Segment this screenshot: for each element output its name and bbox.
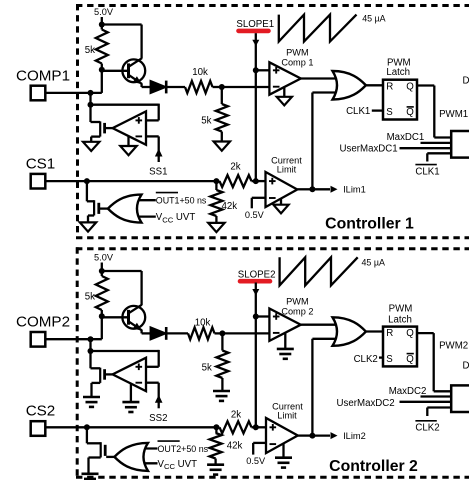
wire: 5.0V rail to transistor collector	[102, 25, 142, 59]
wire: slope node to PWM comparator 2 non-inverting input	[256, 315, 270, 317]
svg-text:COMP1: COMP1	[16, 68, 70, 85]
label: VCC UVT	[156, 212, 196, 224]
wire: base wire 2	[102, 316, 129, 318]
svg-text:PWM: PWM	[286, 48, 308, 58]
ground (below Current Limit)	[273, 198, 288, 213]
svg-text:UserMaxDC1: UserMaxDC1	[340, 143, 398, 154]
wire: UserMaxDC1 input	[400, 147, 452, 149]
comparator U2 (PWM Comp 1)	[269, 48, 313, 95]
svg-text:R: R	[386, 81, 393, 92]
svg-text:SS2: SS2	[149, 413, 167, 424]
wire: CS1 bus	[45, 180, 216, 182]
ground (below M2)	[80, 222, 96, 231]
op-amp U6 (soft-start clamp 2)	[113, 358, 146, 391]
svg-text:CS1: CS1	[26, 155, 56, 172]
node: 5.0V rail junction	[99, 22, 105, 28]
pin COMP1	[16, 68, 70, 101]
label CLK1 (latch set)	[346, 106, 383, 117]
node SS1 (soft-start input)	[149, 149, 167, 178]
svg-text:Limit: Limit	[277, 411, 297, 421]
wire: OR2b top input	[136, 447, 158, 449]
wire: OR2b bottom input	[136, 462, 158, 464]
resistor 5k (pull-up, controller 2)	[85, 271, 108, 316]
label: OUT1+50 ns	[156, 193, 207, 206]
wire: 10k to divider node	[213, 86, 222, 88]
svg-text:Comp 2: Comp 2	[281, 307, 313, 317]
label Controller 1	[325, 216, 414, 233]
resistor 2k (controller 2)	[216, 409, 255, 433]
svg-text:42k: 42k	[222, 201, 238, 212]
ground (below PWM Comp 1)	[277, 86, 292, 105]
node: 5.0V rail junction 2	[99, 268, 105, 274]
svg-text:PWM: PWM	[286, 297, 308, 307]
node: ramp divider junction 2	[219, 330, 225, 336]
wire: sense to op-amp 2 non-inverting input	[91, 350, 159, 367]
ground (below op-amp U6)	[122, 384, 139, 412]
wire: divider node to PWM comparator inverting input	[222, 86, 270, 88]
wire: op-amp output to M1 gate	[106, 127, 113, 129]
svg-text:OUT2+50 ns: OUT2+50 ns	[158, 444, 209, 454]
wire: emitter to diode	[142, 84, 151, 88]
svg-text:Q: Q	[406, 107, 414, 118]
svg-text:CLK2: CLK2	[354, 354, 378, 365]
wire: OR1b top input	[130, 199, 156, 201]
power 5.0V supply	[94, 7, 114, 25]
label CLK1-bar	[415, 165, 439, 178]
label UserMaxDC2	[337, 398, 395, 409]
transistor M1 (clamp MOSFET)	[91, 121, 105, 141]
node: COMP1 / 5k / base junction	[99, 67, 105, 73]
svg-text:Q: Q	[406, 354, 414, 365]
wire: Controller 2 dashed IC boundary	[76, 247, 469, 477]
diode D2	[150, 327, 166, 340]
svg-text:PWM: PWM	[389, 304, 413, 315]
diode D1	[150, 81, 166, 94]
svg-text:Dr: Dr	[463, 75, 469, 86]
svg-text:R: R	[386, 328, 393, 339]
gate OR1 (PWM set logic)	[333, 71, 366, 100]
wire: current limit output	[297, 188, 311, 190]
net SLOPE2	[238, 269, 276, 281]
wire: sense to op-amp non-inverting input	[91, 104, 159, 121]
reference 0.5V (controller 2)	[246, 443, 266, 466]
svg-text:0.5V: 0.5V	[245, 210, 265, 220]
svg-text:5k: 5k	[85, 45, 95, 56]
svg-text:S: S	[386, 107, 393, 118]
wire: summing node to current limit 2 non-inverting input	[256, 426, 266, 428]
svg-text:5k: 5k	[202, 363, 212, 374]
svg-text:5.0V: 5.0V	[94, 253, 114, 263]
net PWM2	[439, 341, 468, 352]
svg-text:2k: 2k	[231, 409, 241, 420]
transistor Q1 (NPN buffer)	[122, 58, 145, 84]
wire: latch Q to driver 2	[417, 333, 451, 391]
svg-text:UserMaxDC2: UserMaxDC2	[337, 398, 395, 409]
wire: MaxDC1 input	[421, 142, 452, 144]
transistor M4 (CS2 discharge MOSFET)	[87, 442, 105, 474]
svg-text:CS2: CS2	[26, 403, 56, 420]
svg-text:0.5V: 0.5V	[246, 456, 266, 466]
op-amp U1 (soft-start clamp)	[113, 111, 146, 144]
svg-text:Dr: Dr	[463, 360, 469, 371]
wire: UserMaxDC2 input	[400, 401, 452, 403]
wire: op-amp 2 inverting input to SS2	[146, 383, 159, 409]
wire: COMP1 down to clamp	[89, 93, 91, 122]
svg-text:PWM1: PWM1	[439, 109, 468, 120]
reference 0.5V	[245, 198, 266, 220]
svg-text:45 µA: 45 µA	[362, 14, 385, 24]
comparator U8 (Current Limit 2)	[266, 401, 303, 453]
svg-text:Limit: Limit	[277, 165, 297, 175]
svg-text:SLOPE1: SLOPE1	[236, 19, 274, 30]
svg-text:Latch: Latch	[386, 67, 410, 78]
wire: CLK2-bar input	[427, 408, 451, 417]
svg-text:5.0V: 5.0V	[94, 7, 114, 17]
wire: PWM comparator 2 output to OR2	[301, 324, 340, 326]
svg-text:Controller 1: Controller 1	[325, 216, 414, 233]
latch U9 (PWM Latch 2)	[383, 304, 417, 367]
resistor 10k	[185, 67, 213, 93]
wire: base wire	[102, 70, 129, 72]
wire: COMP1 to base node	[45, 70, 102, 93]
wire: diode to 10k	[166, 86, 185, 88]
svg-text:5k: 5k	[85, 292, 95, 303]
driver block U5 (cut off at edge)	[451, 131, 469, 158]
svg-text:VCC UVT: VCC UVT	[158, 459, 198, 471]
svg-text:CLK1: CLK1	[346, 106, 370, 117]
svg-text:Comp 1: Comp 1	[281, 58, 313, 68]
ground (below M4)	[82, 474, 99, 480]
label CLK2 (latch set)	[354, 354, 383, 365]
ground (below M3)	[83, 397, 100, 407]
resistor 5k (divider, controller 2)	[202, 333, 229, 391]
label CLK2-bar	[415, 421, 439, 434]
comparator U3 (Current Limit)	[266, 155, 303, 207]
pin CS1	[26, 155, 56, 188]
gate OR2 (PWM set logic 2)	[333, 317, 366, 346]
svg-text:2k: 2k	[230, 162, 240, 173]
wire: slope node to PWM comparator non-inverting input	[256, 69, 270, 71]
ground (below 42k, controller 2)	[207, 465, 224, 475]
svg-text:SS1: SS1	[149, 167, 167, 178]
resistor 10k (controller 2)	[188, 317, 215, 339]
svg-text:45 µA: 45 µA	[362, 257, 385, 267]
wire: OR2 output to latch R 2	[366, 330, 383, 332]
resistor 2k	[216, 162, 255, 188]
label: OUT2+50 ns	[158, 441, 209, 454]
net ILim1 (output arrow)	[312, 185, 365, 195]
wire: Controller 1 dashed IC boundary	[76, 4, 469, 238]
resistor 5k (pull-up)	[85, 25, 108, 70]
current source: sawtooth 45 uA (controller 2)	[280, 257, 385, 285]
label D (driver 2, cut off)	[463, 360, 469, 371]
driver block U10 (cut off at edge)	[451, 385, 469, 412]
resistor 5k (divider)	[201, 87, 228, 141]
label: VCC UVT (controller 2)	[158, 459, 198, 471]
svg-text:5k: 5k	[201, 116, 211, 127]
wire: ILim feedback to OR1	[312, 93, 340, 190]
wire: COMP2 down to clamp	[89, 339, 91, 368]
svg-text:42k: 42k	[227, 441, 243, 452]
node: clamp sense junction 2	[88, 348, 94, 354]
wire: OR2b output to M4 gate	[106, 456, 115, 458]
svg-text:COMP2: COMP2	[16, 314, 70, 331]
comparator U7 (PWM Comp 2)	[269, 297, 313, 341]
svg-text:OUT1+50 ns: OUT1+50 ns	[156, 196, 207, 206]
wire: OR1b output to M2 gate	[100, 207, 108, 209]
svg-text:ILim2: ILim2	[343, 431, 366, 441]
node: slope to PWM comparator	[253, 67, 259, 73]
wire: CS1 to M2 drain	[86, 181, 88, 201]
node: COMP2 / 5k / base junction	[99, 313, 105, 319]
label MaxDC1	[387, 132, 425, 143]
node: ILim2 junction	[309, 433, 315, 439]
gate OR2b (discharge logic 2, mirrored)	[114, 443, 148, 471]
wire: divider node to PWM comparator 2 inverting input	[222, 332, 269, 334]
net PWM1	[439, 109, 468, 120]
label D (driver, cut off)	[463, 75, 469, 86]
wire: CS2 to M4 drain	[86, 427, 88, 443]
ground (below Current Limit 2)	[275, 444, 292, 468]
current source: sawtooth 45 uA	[279, 14, 386, 42]
svg-text:PWM2: PWM2	[439, 341, 468, 352]
wire: emitter to diode 2	[142, 330, 151, 334]
svg-text:CLK1: CLK1	[415, 166, 439, 177]
svg-text:S: S	[386, 354, 393, 365]
wire: SLOPE1 ramp feed	[252, 33, 259, 70]
ground (below PWM Comp 2)	[277, 333, 294, 359]
svg-text:VCC UVT: VCC UVT	[156, 212, 196, 224]
node: ramp divider junction	[219, 84, 225, 90]
wire: CS2 bus	[45, 426, 216, 428]
svg-text:CLK2: CLK2	[415, 423, 439, 434]
wire: COMP2 to base node	[45, 316, 102, 339]
node SS2 (soft-start input)	[149, 395, 167, 424]
label UserMaxDC1	[340, 143, 398, 154]
node: slope to PWM comparator 2	[253, 314, 259, 320]
node: ILim1 junction	[309, 186, 315, 192]
svg-text:Q: Q	[406, 328, 414, 339]
transistor M2 (CS1 discharge MOSFET)	[87, 200, 99, 222]
label MaxDC2	[389, 386, 427, 397]
node: current limit summing node	[253, 178, 259, 184]
svg-text:10k: 10k	[195, 317, 211, 328]
node: COMP2 wire junction	[88, 336, 94, 342]
node: CS2 junction at M4	[84, 424, 90, 430]
gate OR1b (discharge logic, mirrored)	[108, 195, 142, 223]
node: COMP1 wire junction	[88, 90, 94, 96]
svg-text:SLOPE2: SLOPE2	[238, 269, 276, 280]
node: CS1 junction at 42k	[213, 178, 219, 184]
node: CS2 junction at 42k 2	[213, 424, 219, 430]
wire: 10k to divider node 2	[215, 332, 223, 334]
wire: op-amp inverting input to SS1	[146, 136, 159, 162]
power 5.0V supply (controller 2)	[94, 253, 114, 272]
svg-text:ILim1: ILim1	[343, 185, 366, 195]
ground (below 42k)	[208, 223, 224, 232]
transistor Q2 (NPN buffer)	[122, 305, 145, 331]
wire: 5.0V rail to transistor collector 2	[102, 271, 142, 305]
wire: slope node down to current limit 2	[255, 317, 257, 428]
wire: latch Q to driver	[417, 86, 451, 138]
node: clamp sense junction	[88, 102, 94, 108]
svg-text:Controller 2: Controller 2	[329, 458, 418, 475]
svg-text:Latch: Latch	[388, 315, 412, 326]
net SLOPE1	[236, 19, 274, 31]
wire: MaxDC2 input	[421, 395, 452, 397]
svg-text:MaxDC1: MaxDC1	[387, 132, 425, 143]
ground (below divider 5k)	[214, 142, 230, 151]
wire: OR1 output to latch R	[366, 84, 383, 86]
label Controller 2	[329, 458, 418, 475]
latch U4 (PWM Latch)	[383, 57, 417, 119]
wire: CLK1-bar input	[427, 153, 451, 161]
wire: OR1b bottom input	[130, 215, 156, 217]
pin CS2	[26, 403, 56, 436]
pin COMP2	[16, 314, 70, 347]
wire: op-amp 2 output to M3 gate	[106, 373, 113, 375]
wire: current limit 2 output	[298, 434, 312, 436]
ground (below M1)	[83, 142, 99, 151]
wire: PWM comparator output to OR1	[301, 77, 340, 79]
ground (below op-amp U1)	[120, 136, 136, 155]
ground (below divider 5k, controller 2)	[213, 391, 230, 401]
net ILim2 (output arrow)	[312, 431, 365, 441]
svg-text:Q: Q	[406, 81, 414, 92]
node: current limit summing node 2	[253, 424, 259, 430]
node: CS1 junction at M2	[84, 178, 90, 184]
wire: summing node to current limit non-inverting input	[256, 180, 266, 182]
resistor 42k (controller 2)	[210, 427, 243, 464]
transistor M3 (clamp MOSFET 2)	[91, 368, 105, 397]
wire: slope node down to current limit	[255, 70, 257, 181]
wire: SLOPE2 ramp feed	[252, 283, 259, 317]
wire: ILim2 feedback to OR2	[312, 339, 340, 436]
resistor 42k	[210, 181, 237, 223]
svg-text:10k: 10k	[192, 67, 208, 78]
wire: diode to 10k 2	[166, 332, 188, 334]
